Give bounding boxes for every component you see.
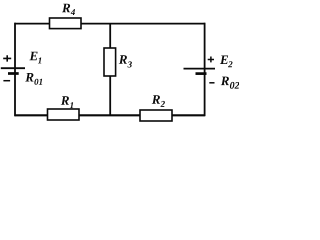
wire top (node between E1+, R4, and top of branch) xyxy=(15,23,205,25)
polarity + of E2 xyxy=(208,57,214,63)
battery E2 positive plate xyxy=(184,68,216,70)
label E1 xyxy=(29,52,41,64)
polarity - of E1 xyxy=(3,80,10,82)
resistor R4 xyxy=(50,18,82,29)
label R2 xyxy=(152,95,165,107)
label R01 xyxy=(25,73,42,85)
resistor R1 xyxy=(48,109,80,120)
label R4 xyxy=(62,4,75,15)
polarity - of E2 xyxy=(209,82,214,84)
label E2 xyxy=(220,56,233,68)
wire middle branch (R3 branch) xyxy=(109,24,111,116)
label R3 xyxy=(119,55,132,67)
wire right (E2 branch) xyxy=(204,23,206,117)
battery E1 positive plate xyxy=(1,67,25,69)
battery E1 negative plate (thick, internal resistance R01) xyxy=(8,72,19,75)
resistor R2 xyxy=(140,110,172,121)
label R1 xyxy=(61,96,73,108)
battery E2 negative plate (thick, internal resistance R02) xyxy=(196,72,207,75)
polarity + of E1 xyxy=(3,55,11,61)
resistor R3 xyxy=(104,48,116,76)
wire bottom xyxy=(15,114,205,116)
wire left (E1 branch) xyxy=(14,23,16,117)
label R02 xyxy=(221,77,240,89)
